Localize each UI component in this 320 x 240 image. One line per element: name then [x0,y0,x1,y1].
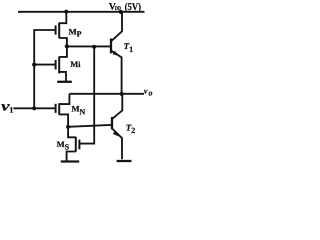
svg-text:o: o [149,89,153,98]
wire input net v1 to gates of MP/Mi/MN [13,30,55,108]
svg-text:T1: T1 [124,41,134,54]
wire MP source to rail [59,12,66,24]
ground at MS source [61,160,79,162]
junction VDD rail / MP source [64,10,68,14]
ground at Mi source [57,81,72,83]
junction node A: MP drain / Mi drain [65,44,69,48]
transistor T2 [112,94,122,160]
svg-text:MS: MS [57,139,70,152]
junction input net / MN gate [32,106,36,110]
junction input net / Mi gate [32,63,36,67]
junction node vo: T1 emitter / T2 collector [120,92,124,96]
svg-text:1: 1 [9,106,13,115]
svg-text:T2: T2 [126,122,136,135]
svg-text:DD: DD [115,6,121,12]
wire VDD rail [18,11,145,13]
svg-text:v: v [144,86,148,95]
junction node B: MN source / MS drain [66,125,70,129]
transistor T1 [111,12,122,94]
transistor Mi [56,47,67,81]
junction node A / MS gate branch [92,45,96,49]
ground at T2 emitter [117,160,132,162]
svg-text:MN: MN [72,104,86,117]
wire node A down to MS gate [79,47,94,144]
wire node A: MP drain to T1 base [66,45,110,47]
transistor MN [56,94,70,127]
svg-text:MP: MP [69,26,82,38]
junction VDD rail / T1 collector [119,10,123,14]
wire node B: MN source to T2 base [68,125,111,127]
wire output node vo [69,93,144,95]
transistor MS [67,127,80,161]
wire Mi gate lead [34,64,55,66]
transistor MP [56,23,67,47]
svg-text:Mi: Mi [70,59,81,69]
svg-text:(5V): (5V) [125,2,141,13]
